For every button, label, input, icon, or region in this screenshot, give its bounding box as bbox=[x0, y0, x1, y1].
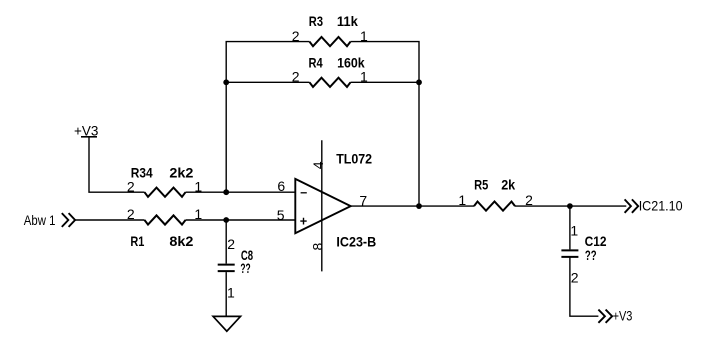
chevron of Abw 1 bbox=[62, 213, 75, 227]
svg-text:1: 1 bbox=[360, 69, 368, 85]
svg-text:2: 2 bbox=[292, 69, 300, 85]
svg-text:Abw 1: Abw 1 bbox=[24, 212, 56, 228]
wire: node A vertical from R3/R4 down to pin6 net bbox=[226, 42, 309, 193]
svg-text:2k2: 2k2 bbox=[169, 164, 193, 180]
svg-text:2: 2 bbox=[227, 236, 235, 252]
resistor R34 bbox=[145, 188, 186, 197]
wire: R1 pin1 to op-amp pin5 bbox=[186, 219, 296, 221]
svg-text:2: 2 bbox=[127, 179, 135, 195]
resistor R4 bbox=[310, 78, 351, 87]
resistor R1 bbox=[145, 215, 186, 224]
wire: R4 pin1 to node B bbox=[351, 81, 420, 83]
power rail through op-amp bbox=[321, 140, 323, 271]
svg-text:IC21.10: IC21.10 bbox=[639, 197, 683, 213]
wire: C12 down and right to +V3 connector bbox=[570, 257, 599, 316]
wire: R3 pin1 to node B bbox=[351, 42, 420, 207]
svg-text:2k: 2k bbox=[501, 177, 515, 193]
svg-text:8: 8 bbox=[310, 243, 326, 251]
wire: op-amp output to R5 bbox=[351, 205, 474, 207]
svg-text:8k2: 8k2 bbox=[169, 233, 193, 249]
resistor R5 bbox=[474, 202, 515, 211]
svg-text:4: 4 bbox=[310, 161, 326, 169]
svg-text:1: 1 bbox=[227, 284, 235, 300]
svg-text:6: 6 bbox=[277, 178, 285, 194]
chevron of +V3 connector bbox=[598, 310, 612, 323]
svg-text:R4: R4 bbox=[309, 54, 323, 70]
junction: node A meets pin6 net bbox=[223, 189, 229, 195]
svg-text:1: 1 bbox=[194, 179, 202, 195]
junction: node B on output net bbox=[416, 203, 422, 209]
svg-text:TL072: TL072 bbox=[336, 151, 372, 167]
svg-text:+V3: +V3 bbox=[613, 308, 633, 324]
wire: junction down to C12 bbox=[569, 206, 571, 249]
svg-text:1: 1 bbox=[458, 192, 466, 208]
svg-text:1: 1 bbox=[360, 28, 368, 44]
svg-text:2: 2 bbox=[292, 28, 300, 44]
svg-text:11k: 11k bbox=[337, 13, 358, 29]
svg-text:??: ?? bbox=[585, 247, 597, 263]
junction: node A on R4 net bbox=[223, 79, 229, 85]
svg-text:5: 5 bbox=[277, 207, 285, 223]
svg-text:1: 1 bbox=[194, 206, 202, 222]
resistor R3 bbox=[310, 37, 351, 46]
svg-text:2: 2 bbox=[127, 206, 135, 222]
svg-text:2: 2 bbox=[571, 269, 579, 285]
svg-text:R1: R1 bbox=[130, 233, 144, 249]
op-amp IC23-B bbox=[295, 179, 350, 233]
capacitor C8 bbox=[218, 265, 235, 272]
minus input mark bbox=[301, 192, 307, 194]
wire: Abw 1 to R1 pin2 bbox=[75, 219, 144, 221]
wire: R34 pin1 to op-amp pin6 bbox=[186, 191, 296, 193]
svg-text:R5: R5 bbox=[474, 177, 488, 193]
wire: C8 to ground bbox=[225, 272, 227, 316]
wire: node A to R4 pin2 bbox=[226, 81, 309, 83]
junction: C12 tap on output net bbox=[567, 203, 573, 209]
svg-text:R3: R3 bbox=[309, 13, 323, 29]
junction: C8 tap on pin5 net bbox=[223, 217, 229, 223]
svg-text:IC23-B: IC23-B bbox=[336, 234, 376, 250]
plus input mark bbox=[300, 218, 306, 225]
svg-text:1: 1 bbox=[570, 222, 578, 238]
ground bbox=[213, 316, 240, 331]
capacitor C12 bbox=[561, 250, 578, 257]
output connector IC21.10 bbox=[625, 199, 639, 212]
wire: +V3 down and right to R34 pin2 bbox=[89, 137, 145, 192]
svg-text:2: 2 bbox=[525, 192, 533, 208]
wire: junction down to C8 bbox=[225, 220, 227, 264]
wire: R5 pin2 to output connector bbox=[515, 205, 626, 207]
svg-text:??: ?? bbox=[240, 260, 250, 276]
junction: node B on R4 net bbox=[416, 79, 422, 85]
